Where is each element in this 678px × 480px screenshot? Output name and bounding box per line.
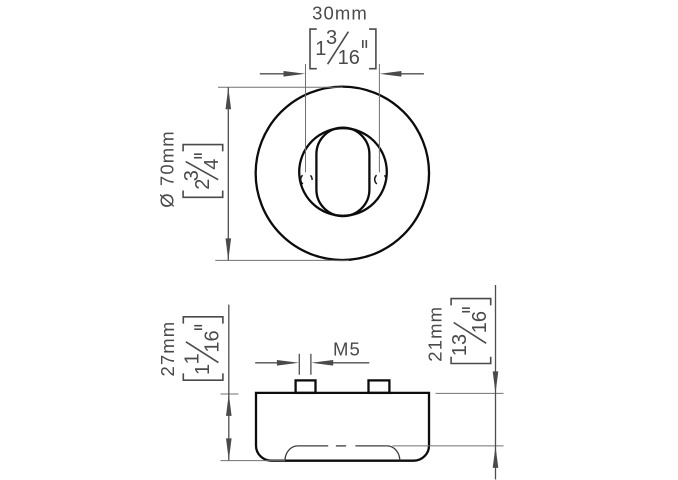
svg-text:4: 4 [201, 159, 223, 170]
svg-text:30mm: 30mm [312, 3, 368, 24]
top view: oval thumbturn hole [316, 128, 369, 217]
hidden screw hole right (dashed arcs) [375, 175, 386, 184]
dimension 27mm: extension lines [220, 394, 285, 461]
svg-text:M5: M5 [333, 338, 361, 359]
svg-text:16: 16 [201, 330, 223, 352]
dimension 30mm: dimension lines with arrows [260, 71, 424, 77]
svg-text:Ø 70mm: Ø 70mm [157, 130, 178, 208]
svg-text:1: 1 [181, 353, 203, 364]
svg-text:13: 13 [449, 334, 471, 356]
svg-text:1: 1 [315, 38, 326, 60]
label 27mm (rotated) [157, 321, 178, 377]
svg-text:3: 3 [326, 27, 337, 49]
side view: left recess fillet [285, 446, 298, 461]
side view: recessed underside line (centre broken) [298, 445, 387, 447]
svg-text:16: 16 [469, 311, 491, 333]
label 21mm (rotated) [425, 306, 446, 362]
label [1 3/16"] [310, 27, 376, 69]
dimension M5: dimension lines with arrows and ticks [255, 354, 369, 375]
hidden screw hole left (dashed arcs) [301, 175, 312, 184]
dimension 30mm: extension lines [306, 64, 380, 172]
label 30mm [312, 3, 368, 24]
svg-text:1: 1 [192, 364, 214, 375]
svg-text:3: 3 [181, 170, 203, 181]
side view: left screw stud [296, 380, 316, 393]
svg-text:16: 16 [338, 47, 360, 69]
dimension 21mm: dimension line with outside arrows [493, 285, 499, 480]
label dia 70mm (rotated) [157, 130, 178, 208]
side view: right recess fillet [387, 446, 400, 461]
svg-text:27mm: 27mm [157, 321, 178, 377]
label [13/16"] (rotated) [449, 299, 491, 364]
dimension dia 70mm: extension lines [215, 87, 349, 260]
label [1 1/16"] (rotated) [181, 317, 223, 380]
label [2 3/4"] (rotated) [181, 145, 223, 198]
label M5 [333, 338, 361, 359]
top view: inner circle [299, 128, 387, 216]
top view: outer circle of rosette [256, 87, 429, 260]
dimension 27mm: dimension line with arrows [226, 305, 232, 461]
side view: body outline [256, 393, 429, 461]
dimension dia 70mm: dimension line with arrows [226, 87, 232, 260]
dimension 21mm: extension lines [393, 393, 504, 446]
svg-text:21mm: 21mm [425, 306, 446, 362]
side view: right screw stud [369, 380, 390, 393]
